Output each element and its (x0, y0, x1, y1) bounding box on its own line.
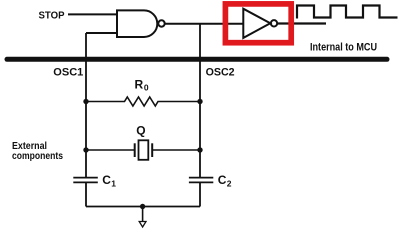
node junction dot ground (140, 204, 145, 209)
wire NAND output to inverter input (165, 23, 244, 25)
capacitor C1 top plate (73, 177, 98, 179)
wire NAND bottom input (86, 32, 118, 34)
node junction dot R0 right (197, 99, 202, 104)
wire OSC1 vertical column (85, 33, 87, 178)
wire OSC1 below C1 (85, 182, 87, 206)
wire bottom rail (86, 206, 200, 208)
svg-text:0: 0 (144, 83, 149, 93)
svg-text:STOP: STOP (39, 10, 65, 22)
wire STOP to NAND top input (68, 13, 118, 15)
svg-text:C: C (102, 173, 111, 187)
svg-text:Q: Q (136, 124, 145, 138)
ground symbol (open triangle) (139, 222, 146, 228)
svg-text:2: 2 (227, 179, 232, 189)
NAND output bubble (158, 20, 164, 26)
crystal Q right plate (151, 143, 153, 157)
svg-text:OSC2: OSC2 (206, 66, 235, 78)
ground stem (142, 207, 144, 222)
capacitor C2 bottom plate (189, 181, 213, 183)
NAND gate (117, 10, 157, 37)
thick separator line internal/external (7, 57, 387, 62)
red highlight box (225, 4, 291, 43)
svg-text:Internal to MCU: Internal to MCU (310, 42, 377, 54)
svg-text:OSC1: OSC1 (53, 66, 83, 78)
crystal Q left plate (134, 143, 136, 157)
node junction dot R0 left (83, 99, 88, 104)
svg-text:R: R (135, 77, 144, 91)
svg-text:C: C (218, 173, 227, 187)
clock waveform (297, 6, 398, 19)
svg-text:1: 1 (111, 179, 116, 189)
capacitor C1 bottom plate (73, 181, 98, 183)
wire OSC2 below C2 (199, 182, 201, 206)
node junction dot crystal right (197, 147, 202, 152)
wire OSC2 vertical column (199, 24, 201, 178)
crystal Q body rectangle (139, 140, 149, 160)
svg-text:components: components (12, 151, 63, 162)
wire inverter output (278, 22, 326, 24)
crystal Q leads (86, 149, 134, 151)
capacitor C2 top plate (189, 177, 213, 179)
inverter triangle (highlighted) (243, 9, 270, 38)
resistor R0 (86, 97, 200, 106)
inverter output bubble (271, 20, 277, 26)
node junction dot crystal left (83, 147, 88, 152)
